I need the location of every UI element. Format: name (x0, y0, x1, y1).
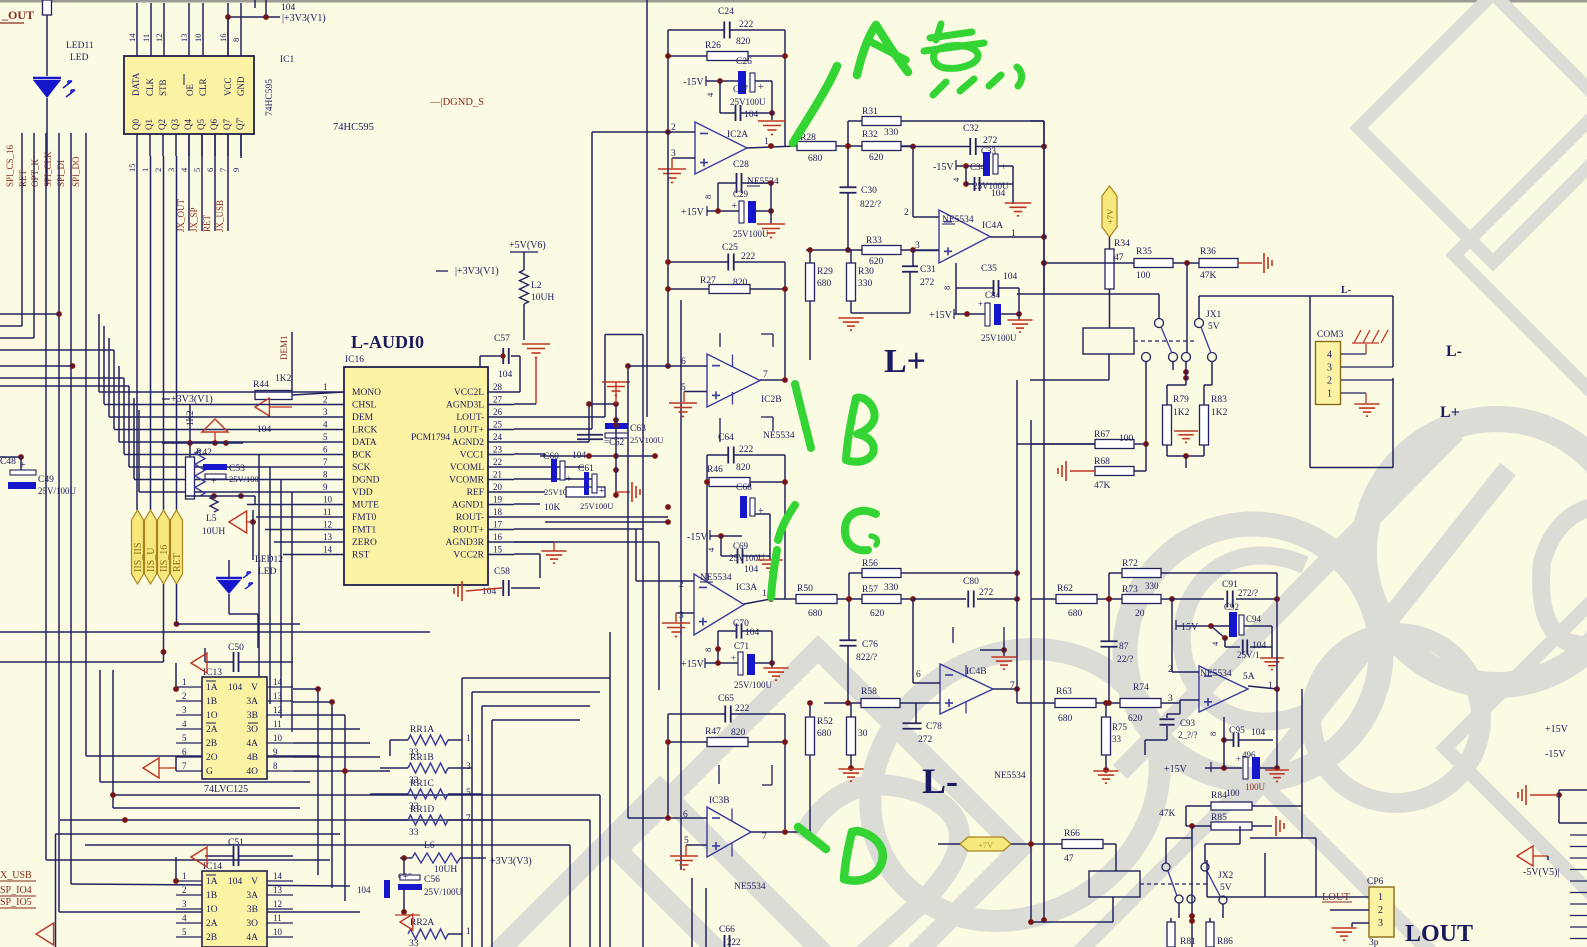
svg-text:2B: 2B (206, 933, 217, 943)
wire (771, 96, 773, 120)
IC13 pin stub (267, 770, 293, 772)
wire (742, 630, 772, 632)
edge stub (1570, 915, 1587, 917)
svg-text:28: 28 (493, 382, 503, 392)
wire IC2B out (760, 379, 785, 381)
capacitor C51 (233, 846, 235, 866)
capacitor C96 (1243, 757, 1248, 779)
resistor R73 (1122, 595, 1161, 604)
wire (1211, 362, 1213, 386)
LED11 (33, 78, 75, 98)
junction (845, 247, 851, 253)
wire (270, 406, 292, 408)
wire to IC16 pin 8 (134, 479, 317, 481)
IC16 pin 8 stub (317, 479, 344, 481)
IC16 pin 9 stub (317, 491, 344, 493)
IC16 pin 14 stub (317, 554, 344, 556)
svg-text:|+3V3(V1): |+3V3(V1) (282, 13, 326, 24)
svg-text:C56: C56 (424, 875, 440, 885)
svg-text:5V: 5V (1208, 322, 1220, 332)
ground (1174, 430, 1198, 432)
svg-text:+: + (1236, 754, 1241, 764)
dashed link (1134, 340, 1196, 342)
svg-text:-5V(V5)|: -5V(V5)| (1523, 867, 1559, 878)
svg-text:LED: LED (258, 567, 277, 577)
junction (187, 440, 193, 446)
edge stub (1570, 892, 1587, 894)
capacitor C49 (10, 470, 36, 475)
svg-text:ROUT-: ROUT- (456, 513, 484, 523)
svg-text:15: 15 (493, 545, 503, 555)
wire IC4B in- (913, 682, 940, 684)
junction (1106, 700, 1112, 706)
wire (965, 166, 967, 184)
IC13 pin stub (176, 756, 202, 758)
wire (588, 404, 590, 442)
wire (1173, 262, 1199, 264)
svg-text:SP_IO4: SP_IO4 (0, 885, 32, 896)
wire (1224, 638, 1226, 647)
net flag triangle (229, 511, 247, 533)
capacitor C32 (969, 138, 971, 155)
svg-text:620: 620 (869, 153, 884, 163)
wire (1161, 598, 1172, 600)
capacitor C84 (985, 303, 990, 326)
svg-text:NE5534: NE5534 (994, 771, 1026, 781)
wire (514, 391, 520, 393)
wire (717, 183, 719, 211)
wire (480, 355, 502, 357)
junction (1041, 144, 1047, 150)
wire (523, 304, 525, 340)
svg-text:100: 100 (1226, 788, 1240, 798)
wire (706, 80, 740, 82)
ground side (1525, 785, 1527, 805)
svg-text:5: 5 (182, 733, 187, 743)
wire (1309, 296, 1311, 468)
svg-text:104: 104 (991, 189, 1006, 199)
IC16 pin 11 stub (317, 516, 344, 518)
wire (1224, 739, 1233, 741)
svg-text:3p: 3p (1369, 938, 1379, 947)
wire (1186, 805, 1211, 807)
IC13 body (202, 677, 267, 779)
svg-text:100: 100 (1119, 434, 1134, 444)
junction (122, 817, 128, 823)
svg-text:C78: C78 (926, 722, 942, 732)
wire (1017, 702, 1055, 704)
wire (668, 55, 707, 57)
junction (1221, 737, 1227, 743)
IC2B power pin stubs (732, 355, 734, 405)
wire stair6 (123, 378, 125, 454)
wire (1112, 897, 1114, 922)
wire (847, 121, 849, 188)
wire (492, 719, 580, 721)
svg-text:3B: 3B (247, 905, 258, 915)
svg-text:2A: 2A (206, 725, 218, 735)
wire (750, 481, 785, 483)
svg-text:C49: C49 (38, 475, 54, 485)
wire (162, 442, 243, 444)
svg-text:4: 4 (1327, 350, 1332, 361)
wire (436, 270, 448, 272)
svg-text:16: 16 (493, 532, 503, 542)
svg-text:NE5534: NE5534 (734, 882, 766, 892)
resistor R85 (1211, 822, 1252, 830)
switch arm (1168, 871, 1177, 896)
wire (1250, 837, 1316, 839)
green annotation (846, 398, 875, 462)
capacitor C63 (605, 423, 628, 429)
IC13 pin stub (176, 728, 202, 730)
wire stub (719, 765, 772, 785)
wire long v (1030, 420, 1032, 920)
svg-text:FMT1: FMT1 (352, 526, 377, 536)
wire (915, 703, 917, 723)
wire (955, 160, 957, 170)
wire (955, 263, 957, 314)
capacitor C25 (727, 254, 729, 271)
svg-text:104: 104 (228, 877, 243, 887)
wire (836, 145, 862, 147)
wire bus-left v1 (33, 133, 35, 338)
svg-text:C93: C93 (1180, 718, 1196, 728)
junction (1001, 647, 1007, 653)
svg-text:C31: C31 (920, 265, 936, 275)
wire (240, 134, 242, 158)
wire (589, 403, 616, 405)
resistor R45 (566, 487, 605, 497)
wire (1185, 362, 1187, 386)
net flag RET (171, 510, 183, 584)
wire diagonal (1211, 626, 1225, 638)
wire (1145, 362, 1147, 445)
svg-text:7: 7 (763, 370, 768, 380)
ground (838, 317, 863, 319)
svg-text:BCK: BCK (352, 451, 372, 461)
wire (1185, 806, 1187, 826)
svg-text:330: 330 (884, 583, 899, 593)
svg-text:822/?: 822/? (860, 200, 881, 210)
wire (1260, 625, 1272, 627)
wire (1205, 843, 1240, 845)
wire (1145, 739, 1167, 741)
svg-text:21: 21 (493, 470, 502, 480)
wire (1105, 703, 1107, 717)
wire (668, 713, 725, 715)
svg-text:R36: R36 (1200, 247, 1216, 257)
wire (390, 739, 408, 741)
svg-text:CLK: CLK (145, 77, 155, 96)
svg-text:LOUT-: LOUT- (456, 413, 484, 423)
wire stair9 (138, 410, 140, 492)
IC14 pin stub (267, 894, 293, 896)
wire (514, 503, 540, 505)
wire stub (720, 417, 773, 442)
svg-text:47: 47 (1064, 854, 1074, 864)
wire (1044, 262, 1134, 264)
wire (291, 332, 293, 390)
wire (1167, 455, 1204, 457)
svg-text:Q1: Q1 (144, 119, 154, 130)
wire (912, 599, 914, 683)
resistor R86 (1206, 922, 1214, 947)
wire R67 row (1017, 443, 1095, 445)
wire (0, 895, 36, 897)
wire (177, 623, 301, 625)
wire (1018, 288, 1020, 320)
wire (1144, 740, 1146, 755)
svg-text:8: 8 (703, 648, 713, 652)
wire (912, 250, 914, 266)
buffer triangle IC13 (191, 653, 207, 673)
svg-text:1: 1 (1268, 681, 1273, 691)
junction (1208, 623, 1214, 629)
svg-text:10K: 10K (544, 503, 561, 513)
switch circle (1155, 319, 1164, 328)
svg-text:4: 4 (182, 719, 187, 729)
wire (850, 250, 852, 263)
svg-text:Q6: Q6 (209, 119, 219, 130)
ground (757, 559, 782, 561)
red bits (400, 914, 413, 930)
wire (1167, 384, 1186, 386)
edge stub (1570, 880, 1587, 882)
svg-text:+: + (758, 82, 764, 93)
junction (173, 686, 179, 692)
wire (824, 702, 861, 704)
svg-text:25V100U: 25V100U (630, 435, 664, 445)
wire (599, 795, 601, 947)
wire (953, 309, 955, 319)
wire (1330, 909, 1369, 911)
IC16 pin 24 stub (488, 441, 514, 443)
wire stair3 (108, 338, 110, 417)
wire (1530, 794, 1559, 796)
wire (609, 632, 611, 947)
wire (159, 767, 176, 769)
wire (448, 933, 462, 935)
svg-text:8: 8 (703, 195, 713, 199)
resistor R72 (1122, 569, 1161, 578)
wire bus-left v0 (21, 133, 23, 326)
switch circle (1162, 863, 1170, 871)
svg-text:18: 18 (493, 507, 503, 517)
wire IC4A in- (913, 216, 939, 218)
green annotation (871, 42, 906, 60)
svg-text:12: 12 (273, 899, 282, 909)
IC16 pin 16 stub (488, 541, 514, 543)
wire IC4B in+ (916, 702, 940, 704)
svg-text:1: 1 (1327, 389, 1332, 400)
junction (845, 700, 851, 706)
wire (1109, 237, 1111, 249)
junction (1183, 369, 1189, 375)
IC13 pin stub (176, 714, 202, 716)
wire (1158, 294, 1160, 319)
svg-text:222: 222 (741, 252, 756, 262)
wire down4 (291, 492, 293, 732)
wire (1043, 121, 1045, 263)
wire (913, 598, 966, 600)
svg-text:C58: C58 (494, 567, 510, 577)
svg-text:25V/100: 25V/100 (229, 474, 259, 484)
wire bus mid v3 (680, 300, 682, 870)
junction (704, 479, 710, 485)
svg-text:ZERO: ZERO (352, 538, 377, 548)
junction (1106, 596, 1112, 602)
wire (1043, 263, 1045, 920)
wire (1244, 625, 1260, 627)
svg-text:MUTE: MUTE (352, 501, 379, 511)
svg-text:LOUT: LOUT (1322, 892, 1351, 903)
OE overline (183, 74, 185, 85)
svg-text:VCOML: VCOML (450, 463, 485, 473)
svg-text:1A: 1A (206, 877, 218, 887)
capacitor C65 (724, 706, 726, 723)
svg-text:25V/100U: 25V/100U (38, 486, 77, 496)
wire (0, 631, 430, 633)
ground side (631, 482, 633, 502)
wire (616, 491, 630, 493)
wire (1166, 714, 1168, 718)
capacitor C53 (203, 464, 227, 470)
wire feedback right (784, 30, 786, 146)
wire (1205, 767, 1242, 769)
wire (479, 356, 481, 367)
junction (1106, 596, 1112, 602)
wire (71, 884, 350, 886)
wire (99, 670, 101, 782)
junction (1143, 441, 1149, 447)
junction (250, 519, 256, 525)
wire (719, 95, 721, 113)
svg-text:9: 9 (323, 482, 328, 492)
wire (1108, 573, 1110, 641)
inductor L2 (520, 270, 529, 304)
power flag +7V (1102, 186, 1117, 237)
wire to IC16 pin 10 (247, 504, 317, 506)
wire to IC16 pin 5 (119, 441, 317, 443)
op-amp IC4B (940, 664, 993, 714)
wire (1239, 739, 1273, 741)
inductor L5 (210, 496, 218, 512)
svg-text:2: 2 (182, 885, 187, 895)
junction (500, 353, 505, 358)
wire (1166, 726, 1168, 740)
wire (317, 689, 319, 875)
junction (665, 815, 671, 821)
svg-text:3O: 3O (246, 725, 258, 735)
wire (1209, 918, 1211, 922)
wire (1260, 767, 1277, 769)
svg-text:222: 222 (739, 445, 754, 455)
IC13 pin stub (267, 742, 293, 744)
svg-text:10UH: 10UH (531, 293, 554, 303)
1A overline (206, 874, 216, 876)
svg-text:JX2: JX2 (1218, 871, 1234, 881)
wire (1351, 923, 1353, 927)
wire (615, 404, 617, 498)
wire (1559, 789, 1587, 791)
resistor RR1C (408, 789, 448, 799)
wire (604, 335, 606, 418)
wire (720, 536, 722, 556)
svg-text:1: 1 (466, 927, 471, 937)
wire bus-left v5 (85, 133, 87, 756)
wire (293, 756, 380, 758)
junction (910, 144, 916, 150)
resistor R33 (862, 246, 901, 255)
wire (709, 530, 711, 540)
svg-text:10UH: 10UH (202, 527, 225, 537)
junction (161, 649, 167, 655)
wire (204, 648, 206, 662)
wire (189, 404, 191, 457)
wire (553, 542, 555, 551)
svg-text:620: 620 (870, 609, 885, 619)
resistor RR2A (408, 929, 448, 939)
wire (809, 250, 811, 263)
svg-text:LED11: LED11 (66, 41, 94, 51)
svg-text:2: 2 (153, 168, 163, 172)
svg-text:100: 100 (1136, 271, 1151, 281)
wire (163, 652, 165, 662)
wire (1204, 384, 1212, 386)
svg-text:C50: C50 (228, 643, 244, 653)
wire (293, 714, 345, 716)
wire (462, 677, 610, 679)
svg-text:IC2B: IC2B (761, 395, 782, 405)
wire (1145, 444, 1147, 471)
svg-text:47K: 47K (1094, 481, 1111, 491)
IC16 pin 20 stub (488, 491, 514, 493)
svg-text:2A: 2A (206, 919, 218, 929)
wire (1166, 445, 1168, 456)
junction (807, 247, 813, 253)
svg-text:R72: R72 (1122, 559, 1138, 569)
svg-text:NE5534: NE5534 (1200, 669, 1232, 679)
svg-text:R79: R79 (1173, 395, 1189, 405)
svg-text:104: 104 (745, 628, 760, 638)
svg-text:1: 1 (182, 677, 187, 687)
svg-text:LED: LED (70, 53, 89, 63)
capacitor C29 (739, 201, 744, 223)
IC4B power pin stubs (965, 665, 967, 714)
LED12 (216, 572, 253, 594)
svg-text:SPI_DO: SPI_DO (71, 156, 81, 187)
svg-text:222: 222 (739, 20, 754, 30)
svg-text:1K2: 1K2 (1211, 408, 1228, 418)
wire (1252, 805, 1302, 807)
wire IC2B in+ (684, 391, 707, 393)
svg-text:23: 23 (493, 445, 503, 455)
svg-text:20: 20 (1135, 609, 1145, 619)
svg-text:C27: C27 (733, 84, 749, 94)
wire (741, 112, 772, 114)
junction (768, 596, 774, 602)
svg-text:5V: 5V (1220, 883, 1232, 893)
green annotation (795, 384, 811, 448)
svg-text:74HC595: 74HC595 (265, 79, 275, 116)
svg-text:272: 272 (920, 278, 935, 288)
svg-text:REF: REF (467, 488, 484, 498)
resistor R75 (1102, 717, 1111, 755)
svg-text:3A: 3A (246, 891, 258, 901)
ground (541, 550, 566, 552)
wire (1167, 713, 1180, 715)
